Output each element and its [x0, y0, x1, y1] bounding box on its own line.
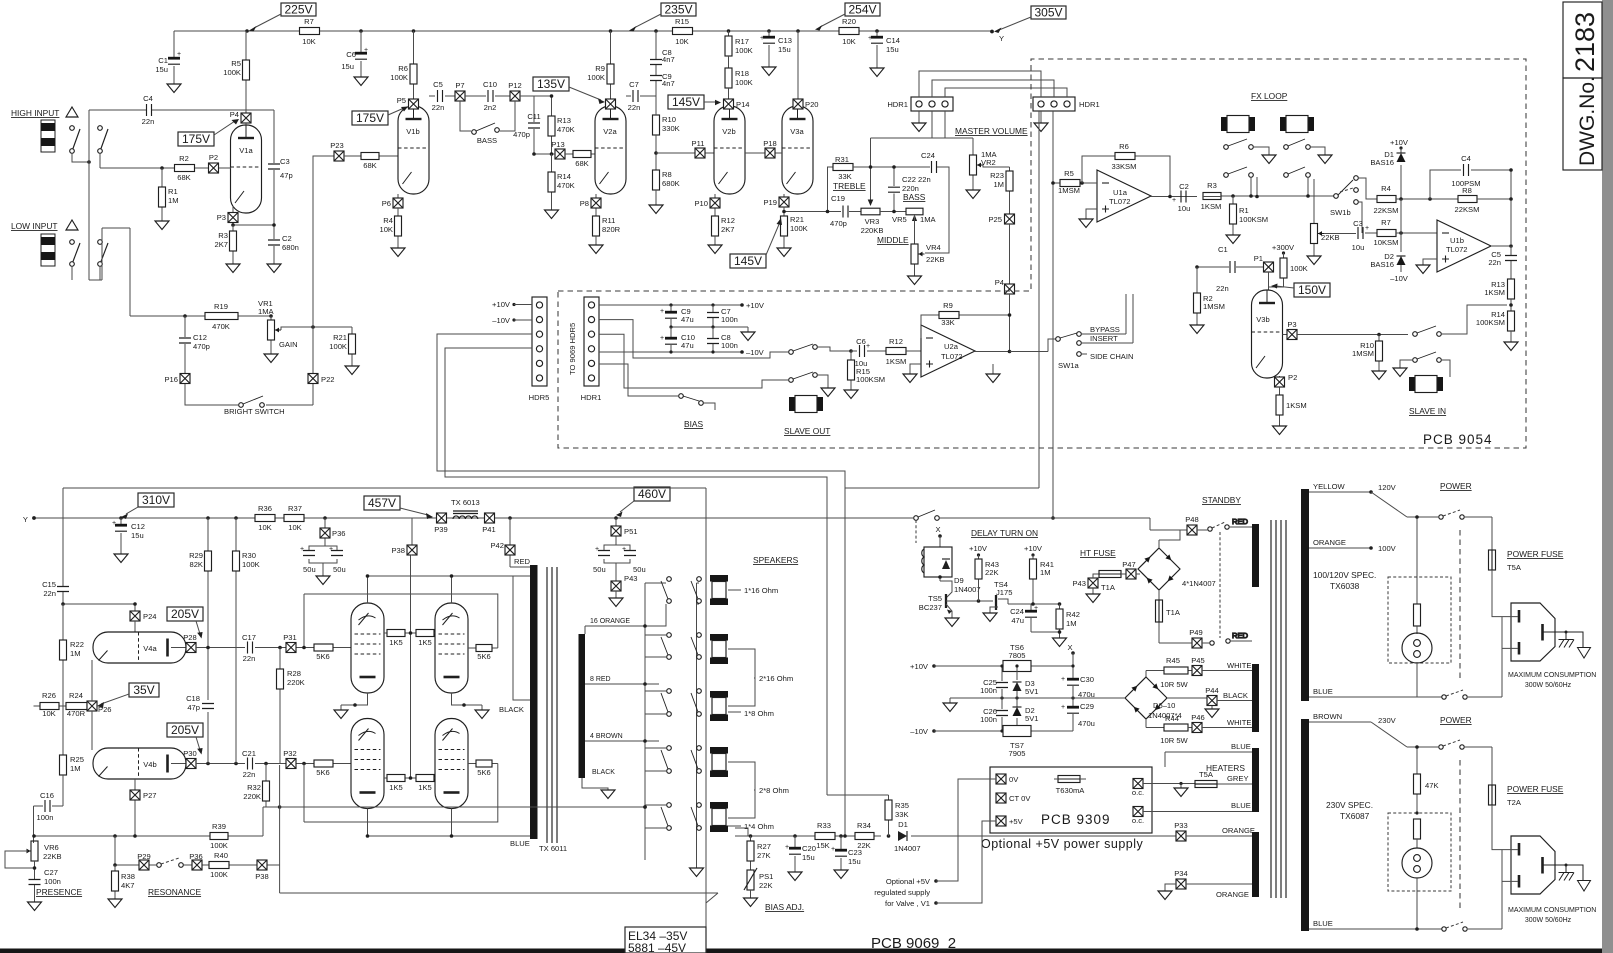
voltage selector dashed box b: [1388, 813, 1451, 891]
svg-text:305V: 305V: [1034, 6, 1062, 20]
transistor TS4 J175: [990, 580, 1030, 613]
svg-text:10u: 10u: [1352, 243, 1365, 252]
svg-text:1MSM: 1MSM: [1203, 302, 1225, 311]
output tube V8 lower right: [435, 719, 468, 809]
svg-text:o.c.: o.c.: [1132, 788, 1144, 797]
P12 crossbox: [508, 81, 522, 101]
svg-text:R15: R15: [675, 17, 689, 26]
svg-text:120V: 120V: [1378, 483, 1397, 492]
svg-text:0V: 0V: [1009, 775, 1019, 784]
wire to P11: [656, 152, 714, 154]
svg-text:R23: R23: [990, 171, 1004, 180]
svg-text:P23: P23: [330, 141, 344, 150]
svg-text:P34: P34: [1174, 869, 1188, 878]
voltage box 175V a: [178, 119, 239, 146]
svg-text:R9: R9: [943, 301, 953, 310]
svg-text:10K: 10K: [42, 709, 56, 718]
resistor R35 33K: [827, 795, 909, 836]
voltage box 310V: [121, 493, 174, 519]
slave in jack: [1409, 376, 1443, 393]
svg-text:100KSM: 100KSM: [856, 375, 885, 384]
resistor 5K6 upper right: [302, 594, 498, 661]
svg-text:5K6: 5K6: [316, 768, 330, 777]
svg-text:1K5: 1K5: [418, 638, 432, 647]
svg-text:R4: R4: [383, 216, 393, 225]
bottom border bar left segment: [0, 949, 625, 953]
svg-text:INSERT: INSERT: [1090, 334, 1118, 343]
voltage box 205V b: [167, 723, 203, 755]
capacitor C17: [242, 633, 256, 663]
svg-text:R11: R11: [602, 216, 615, 225]
wire SW1b contacts: [1358, 178, 1377, 233]
svg-text:C15: C15: [42, 580, 56, 589]
svg-text:22n: 22n: [1488, 258, 1501, 267]
svg-text:HDR1: HDR1: [887, 100, 908, 109]
potentiometer VR1: [258, 299, 298, 354]
wire black secondary ground: [582, 769, 615, 790]
P14 crossbox: [724, 99, 750, 109]
capacitor C26: [980, 698, 1008, 731]
P24 crossbox: [130, 611, 157, 632]
svg-text:PCB 9069_2: PCB 9069_2: [871, 935, 956, 952]
wire P49 row: [1159, 642, 1192, 644]
svg-text:V3b: V3b: [1256, 315, 1270, 324]
resistor R45: [1146, 656, 1192, 689]
capacitor C12 15u: [112, 516, 145, 554]
svg-text:R39: R39: [212, 822, 226, 831]
svg-text:100KSM: 100KSM: [1476, 318, 1505, 327]
node P31 junction: [278, 646, 282, 650]
svg-text:P43: P43: [1072, 579, 1086, 588]
svg-text:10R 5W: 10R 5W: [1160, 680, 1188, 689]
resistor R8 680K: [653, 170, 680, 205]
svg-text:R25: R25: [70, 755, 84, 764]
ground C12: [114, 554, 128, 563]
resistor R37: [284, 504, 304, 532]
wire bias +10V rail: [599, 304, 742, 306]
ground C14: [870, 68, 884, 77]
wire v4a out row: [196, 647, 351, 649]
svg-text:16 ORANGE: 16 ORANGE: [590, 618, 630, 625]
ground VR4: [908, 276, 922, 285]
capacitor C6 10u: [851, 337, 886, 368]
speaker jack 5: [710, 802, 728, 832]
wire RED tap: [510, 557, 531, 567]
ground fx row1 a: [1262, 155, 1276, 164]
capacitor C19: [830, 194, 861, 228]
svg-text:BROWN: BROWN: [1313, 712, 1342, 721]
fuse T630mA: [1054, 776, 1086, 796]
ground slave: [821, 380, 835, 397]
svg-text:+: +: [364, 47, 368, 54]
svg-text:1MSM: 1MSM: [1352, 349, 1374, 358]
svg-text:P19: P19: [763, 198, 777, 207]
svg-text:4*1N4007: 4*1N4007: [1182, 579, 1216, 588]
svg-text:P39: P39: [434, 525, 448, 534]
svg-text:BIAS ADJ.: BIAS ADJ.: [765, 902, 804, 912]
wire R3 row riser: [1203, 177, 1257, 197]
resistor R17: [725, 31, 753, 56]
P51 crossbox: [611, 516, 638, 545]
P6 crossbox: [382, 194, 403, 208]
svg-text:15u: 15u: [848, 857, 861, 866]
voltage selector dashed box a: [1388, 577, 1451, 663]
HDR1 connector left: [887, 97, 953, 111]
standby switch: [914, 510, 940, 520]
svg-text:R31: R31: [835, 155, 849, 164]
HDR1 connector bias: [581, 297, 602, 402]
svg-text:1N4007: 1N4007: [894, 844, 921, 853]
potentiometer VR5: [892, 208, 937, 224]
svg-text:V4a: V4a: [143, 644, 157, 653]
resistor 5K6 upper left: [314, 644, 333, 661]
transformer primary bar: [530, 565, 538, 839]
svg-text:P14: P14: [736, 100, 750, 109]
svg-text:PCB 9309: PCB 9309: [1041, 812, 1111, 827]
wire 4 ohm tap: [585, 733, 659, 741]
wire HDR5 loop B: [445, 348, 827, 795]
svg-text:470K: 470K: [557, 181, 575, 190]
svg-text:100n: 100n: [980, 686, 997, 695]
wire C5 row to C11 R13: [520, 95, 552, 97]
svg-text:HEATERS: HEATERS: [1206, 763, 1245, 773]
svg-text:T2A: T2A: [1507, 798, 1522, 807]
resistor R15 100KSM: [848, 349, 886, 390]
triode V3a: [782, 106, 813, 194]
svg-text:o.c.: o.c.: [1132, 816, 1144, 825]
voltage box 225V: [249, 3, 316, 32]
ground R1: [1226, 235, 1240, 244]
svg-text:D1: D1: [898, 820, 908, 829]
wire HDR1 jumper loops: [871, 71, 1068, 155]
svg-text:1M: 1M: [168, 196, 179, 205]
ground mid rail: [943, 703, 957, 712]
svg-text:+10V: +10V: [1390, 138, 1409, 147]
svg-text:145V: 145V: [672, 95, 700, 109]
selector motor a: [1402, 633, 1432, 663]
P38 crossbox a: [391, 518, 417, 555]
P41 crossbox: [482, 513, 496, 534]
selector resistor a: [1414, 604, 1421, 634]
svg-text:1M: 1M: [70, 764, 81, 773]
resistor R12 1KSM: [886, 337, 921, 366]
triode V1a: [231, 125, 262, 213]
svg-text:P36: P36: [189, 852, 203, 861]
svg-text:5K6: 5K6: [477, 768, 491, 777]
dashed link selector a: [1459, 530, 1461, 680]
ground U2a plus: [903, 364, 921, 383]
wire bypass insert risers: [1126, 294, 1133, 343]
switch SW1b: [1330, 176, 1358, 217]
svg-text:J175: J175: [996, 588, 1012, 597]
svg-text:MASTER VOLUME: MASTER VOLUME: [955, 126, 1028, 136]
ground R42: [1053, 638, 1067, 647]
svg-text:100K: 100K: [329, 342, 347, 351]
dashed boundary PCB 9054: [558, 59, 1526, 448]
P8 crossbox: [580, 194, 601, 216]
dashed link selector b: [1459, 760, 1461, 910]
svg-text:D6–10: D6–10: [1153, 701, 1175, 710]
svg-text:BLUE: BLUE: [1231, 742, 1251, 751]
svg-text:Optional +5V power supply: Optional +5V power supply: [981, 837, 1143, 851]
svg-text:175V: 175V: [182, 132, 210, 146]
regulator TS6 7805: [1003, 643, 1031, 672]
switch slave lower: [1413, 352, 1442, 362]
svg-text:35V: 35V: [133, 683, 154, 697]
switch speaker row4: [661, 746, 701, 774]
resistor R24: [66, 691, 87, 718]
capacitor C4 100PSM: [1430, 154, 1511, 199]
capacitor C6 15u: [341, 31, 368, 77]
svg-text:22n: 22n: [628, 103, 641, 112]
svg-text:C21: C21: [242, 749, 256, 758]
capacitor C12 470p: [179, 316, 210, 373]
P44 crossbox: [1205, 686, 1252, 709]
wire C1 input row: [1197, 266, 1263, 268]
svg-text:310V: 310V: [142, 493, 170, 507]
resistor R23: [990, 167, 1013, 214]
svg-text:SIDE CHAIN: SIDE CHAIN: [1090, 352, 1133, 361]
mains plug b: [1502, 836, 1591, 929]
resistor 68K V2a grid: [534, 151, 595, 169]
svg-text:R38: R38: [121, 872, 135, 881]
svg-text:+: +: [177, 51, 181, 58]
wire upper cathodes: [341, 693, 482, 705]
svg-text:100K: 100K: [223, 68, 241, 77]
capacitor C14: [868, 31, 900, 68]
transformer TX6013 choke: [451, 498, 480, 519]
capacitor C3: [268, 110, 293, 225]
svg-text:680K: 680K: [662, 179, 680, 188]
svg-text:100K: 100K: [735, 78, 753, 87]
P27 crossbox: [130, 779, 157, 836]
svg-text:C7: C7: [629, 80, 639, 89]
svg-text:C30: C30: [1080, 675, 1094, 684]
P47 crossbox: [1122, 560, 1140, 579]
capacitor C5: [429, 80, 455, 112]
svg-text:R20: R20: [842, 17, 856, 26]
ground C1: [167, 84, 181, 93]
P43 crossbox ht: [1072, 578, 1115, 594]
potentiometer PS1 bias trim: [744, 868, 773, 898]
capacitor C1 22n fx: [1216, 245, 1235, 293]
svg-text:22n: 22n: [243, 654, 256, 663]
capacitor 50u pair b: [593, 545, 646, 581]
P13 crossbox: [551, 140, 565, 159]
svg-text:FX LOOP: FX LOOP: [1251, 91, 1288, 101]
+10V -10V labels hdr5: [492, 300, 532, 325]
capacitor C5 22n: [1488, 246, 1517, 279]
relay coil: [922, 547, 952, 577]
resistor R33: [815, 821, 835, 850]
svg-text:GAIN: GAIN: [279, 340, 298, 349]
svg-text:C24: C24: [921, 151, 935, 160]
capacitor C3 10u: [1324, 219, 1377, 252]
svg-text:100n: 100n: [721, 341, 738, 350]
svg-text:50u: 50u: [593, 565, 606, 574]
svg-text:POWER FUSE: POWER FUSE: [1507, 549, 1564, 559]
svg-text:SW1b: SW1b: [1330, 208, 1351, 217]
switch speaker row1: [661, 577, 701, 604]
svg-text:100n: 100n: [721, 315, 738, 324]
svg-text:+: +: [1172, 197, 1176, 204]
output tube V7 lower left: [351, 719, 384, 809]
wire P25 to P4: [1009, 224, 1011, 284]
capacitor C8 4n7: [650, 31, 675, 75]
svg-text:205V: 205V: [171, 723, 199, 737]
resistor R12 2K7: [712, 216, 735, 245]
svg-text:V4b: V4b: [143, 760, 157, 769]
svg-text:P28: P28: [183, 633, 197, 642]
wire +10V rail psu: [910, 662, 1073, 671]
wire V3a plate stem: [797, 31, 799, 99]
bridge rectifier D6-10: [1125, 677, 1182, 720]
svg-text:100K: 100K: [1290, 264, 1308, 273]
node R4 junction: [1399, 197, 1432, 235]
op-amp U1b: [1437, 220, 1491, 272]
BLUE GREY BLUE labels heater: [1227, 742, 1251, 810]
input arrow high: [66, 107, 78, 117]
svg-text:15K: 15K: [816, 841, 830, 850]
resistor R1: [159, 168, 179, 221]
ground fx row1 b: [1318, 155, 1332, 164]
svg-text:C10: C10: [483, 80, 497, 89]
svg-text:P20: P20: [805, 100, 819, 109]
wire 8 ohm tap: [585, 676, 659, 684]
resistor R25: [60, 755, 84, 806]
svg-text:470u: 470u: [1078, 719, 1095, 728]
svg-text:1N4007: 1N4007: [954, 585, 981, 594]
svg-text:P38: P38: [255, 872, 269, 881]
svg-text:BRIGHT SWITCH: BRIGHT SWITCH: [224, 407, 285, 416]
svg-text:1KSM: 1KSM: [1201, 202, 1222, 211]
svg-text:C4: C4: [1461, 154, 1471, 163]
ground 1KSM: [1273, 426, 1287, 435]
svg-text:R7: R7: [1381, 218, 1391, 227]
svg-text:VR4: VR4: [926, 243, 941, 252]
svg-text:+: +: [660, 308, 664, 315]
resistor R32 220K: [243, 764, 269, 808]
ground speaker matrix: [690, 868, 704, 877]
switch speaker row2: [661, 633, 701, 660]
svg-text:C22 22n: C22 22n: [902, 175, 931, 184]
voltage box 205V a: [167, 607, 203, 639]
capacitor C25: [980, 664, 1008, 698]
wire U2a output: [975, 294, 1010, 352]
fuse power b: [1489, 785, 1503, 850]
P3 crossbox: [217, 206, 238, 225]
P46 crossbox: [1165, 713, 1252, 733]
resistor 68K V1b grid: [344, 153, 398, 171]
selector resistor b: [1414, 811, 1421, 848]
svg-text:15u: 15u: [802, 853, 815, 862]
resistor R36: [255, 504, 275, 532]
resistor R7: [300, 17, 320, 46]
svg-text:100n: 100n: [980, 715, 997, 724]
svg-text:Y: Y: [23, 515, 28, 524]
svg-text:15u: 15u: [341, 62, 354, 71]
svg-text:R5: R5: [1064, 169, 1074, 178]
wire 1x4 to bias row: [735, 828, 748, 836]
resistor R2: [175, 154, 195, 182]
P10 crossbox: [694, 194, 720, 216]
svg-text:+300V: +300V: [1272, 243, 1295, 252]
wire plate rail bottom: [368, 809, 531, 837]
resistor R9 feedback: [921, 301, 1010, 352]
resistor R29 82K: [189, 516, 211, 763]
svg-text:YELLOW: YELLOW: [1313, 482, 1345, 491]
svg-text:135V: 135V: [537, 77, 565, 91]
wire low input runs: [72, 228, 130, 316]
svg-text:HDR1: HDR1: [1079, 100, 1100, 109]
resistor R38: [112, 865, 135, 899]
node X psu: [1067, 643, 1074, 731]
capacitor C7: [626, 80, 656, 112]
svg-text:ORANGE: ORANGE: [1216, 890, 1249, 899]
svg-text:1M: 1M: [993, 180, 1004, 189]
op-amp U2a: [921, 325, 975, 377]
svg-text:SLAVE IN: SLAVE IN: [1409, 406, 1446, 416]
svg-text:–10V: –10V: [492, 316, 511, 325]
label 1x8 ohm: [728, 709, 774, 718]
svg-text:P32: P32: [283, 749, 297, 758]
svg-text:BLUE: BLUE: [1313, 919, 1333, 928]
wire fx row1 grounds: [1253, 147, 1325, 155]
fx switch row1: [1224, 139, 1311, 149]
svg-text:R28: R28: [287, 669, 301, 678]
crossbox +5V: [996, 816, 1024, 826]
svg-text:5K6: 5K6: [316, 652, 330, 661]
svg-text:C18: C18: [186, 694, 200, 703]
regulator TS7 7905: [1003, 726, 1031, 759]
svg-text:R26: R26: [42, 691, 56, 700]
resistor R3: [214, 225, 236, 264]
svg-text:HT FUSE: HT FUSE: [1080, 548, 1116, 558]
svg-text:X: X: [935, 525, 940, 534]
svg-text:470p: 470p: [830, 219, 847, 228]
resistor R14 100KSM: [1476, 310, 1515, 342]
svg-text:P38: P38: [391, 546, 405, 555]
resistor R19: [205, 302, 238, 331]
BLACK center tap: [499, 576, 530, 714]
ground R14: [545, 210, 559, 219]
svg-text:–10V: –10V: [1390, 274, 1409, 283]
svg-text:82K: 82K: [189, 560, 203, 569]
BLUE tap a: [1309, 687, 1417, 697]
svg-text:10K: 10K: [842, 37, 856, 46]
switch mains b1: [1439, 740, 1464, 749]
svg-text:+: +: [1061, 704, 1065, 711]
diode D3 5V1: [1013, 664, 1039, 698]
resistor R13 470K: [548, 96, 575, 154]
resistor R21 gain: [329, 327, 355, 366]
svg-text:MAXIMUM CONSUMPTION: MAXIMUM CONSUMPTION: [1508, 672, 1596, 679]
svg-text:4K7: 4K7: [121, 881, 135, 890]
resistor R6 33KSM feedback: [1082, 142, 1197, 198]
svg-text:47u: 47u: [681, 341, 694, 350]
dashed standby link: [1219, 532, 1221, 638]
svg-text:R17: R17: [735, 37, 749, 46]
svg-text:V1a: V1a: [239, 146, 253, 155]
capacitor C9 4n7: [650, 72, 675, 106]
svg-text:50u: 50u: [333, 565, 346, 574]
bright switch: [185, 384, 313, 416]
P3 crossbox v3b: [1283, 320, 1298, 340]
title block box DWG.No.: [1563, 76, 1602, 170]
svg-text:P22: P22: [321, 375, 335, 384]
ground P44: [1205, 709, 1219, 718]
capacitor C4: [89, 94, 274, 126]
